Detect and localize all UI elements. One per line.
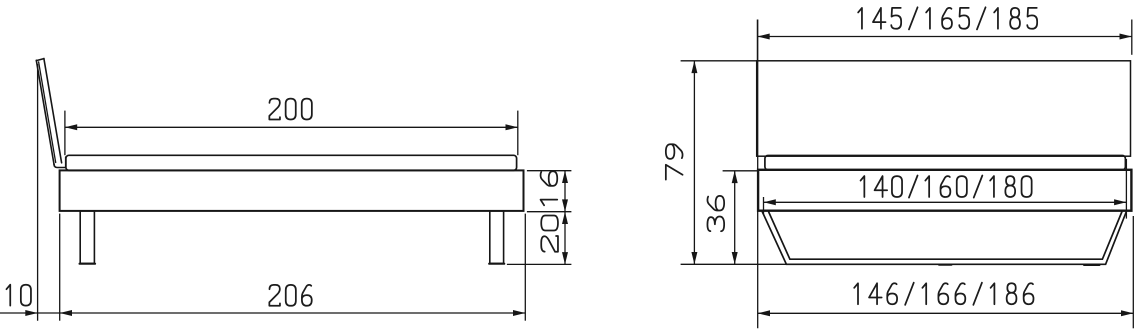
dim 36: top extension tick bbox=[723, 170, 758, 172]
label 206 bbox=[269, 285, 311, 306]
side view: right leg bottom bbox=[489, 263, 504, 265]
front view: lower frame outer bbox=[762, 212, 1126, 264]
label 140/160/180 bbox=[861, 176, 1032, 198]
side view: left leg bbox=[80, 211, 94, 264]
label 200 bbox=[269, 99, 312, 120]
dim 200: dimension line bbox=[65, 126, 518, 128]
dim 79: top extension (headboard top line) bbox=[681, 60, 757, 62]
side view: headboard top cap bbox=[36, 59, 44, 61]
dim 36: dimension line bbox=[734, 171, 736, 264]
side view: headboard foot bbox=[54, 157, 66, 168]
label 10 bbox=[6, 285, 31, 306]
dim 145/165/185: dimension line bbox=[757, 36, 1131, 38]
side view: left leg bottom bbox=[80, 263, 95, 265]
dim 140/160/180: extension lines bbox=[763, 197, 765, 214]
label 20 (rotated) bbox=[541, 215, 558, 251]
dim 145/165/185: extension lines bbox=[756, 20, 758, 62]
dim 140/160/180: dimension line bbox=[764, 201, 1127, 203]
side view: headboard inner edge bbox=[44, 59, 62, 163]
side view: bed frame rail bbox=[60, 170, 524, 211]
dim 79: bottom extension line bbox=[681, 263, 787, 265]
side view: headboard face line bbox=[39, 62, 56, 163]
dim 10/206: extension lines bbox=[37, 64, 39, 321]
dim 146/166/186: dimension line bbox=[758, 312, 1134, 314]
dim 16/20: dimension line bbox=[564, 171, 566, 265]
label 146/166/186 bbox=[854, 283, 1033, 305]
dim 146/166/186: extension lines bbox=[757, 20, 759, 329]
front view: lower frame bottom seam marks bbox=[939, 264, 952, 266]
dim 16/20: extension ticks bbox=[527, 170, 572, 172]
side view: right leg bbox=[490, 211, 504, 264]
side view: headboard outer edge bbox=[36, 59, 523, 264]
front view: headboard panel bbox=[757, 61, 1131, 156]
label 36 (rotated) bbox=[707, 196, 724, 231]
dim 10/206: dimension line bbox=[0, 312, 525, 314]
front view: mattress slab bbox=[765, 156, 1126, 170]
dim 79: dimension line bbox=[693, 61, 695, 264]
label 79 (rotated) bbox=[666, 144, 683, 179]
label 16 (rotated) bbox=[541, 171, 558, 205]
dim 200: extension lines bbox=[64, 111, 66, 156]
label 145/165/185 bbox=[858, 7, 1037, 29]
side view: mattress slab bbox=[66, 155, 517, 170]
front view: bed frame rail bbox=[758, 170, 1131, 211]
front view: lower frame inner bbox=[769, 212, 1122, 259]
